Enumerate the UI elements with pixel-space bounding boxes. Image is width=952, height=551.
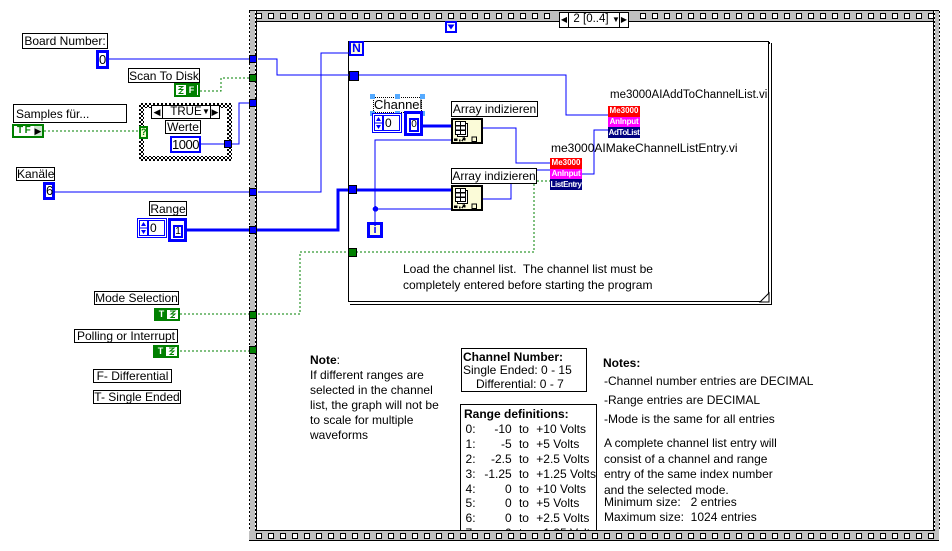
tunnel seq mode [249, 311, 257, 319]
selection handles channel [370, 94, 375, 99]
wire polling or interrupt [180, 350, 250, 352]
for loop shadow bottom [350, 304, 772, 305]
range definitions box [460, 404, 597, 537]
label Werte [165, 120, 201, 134]
icon index array 2 [451, 185, 483, 211]
sequence structure film strip frame [249, 10, 939, 22]
wire index array 2 output [483, 170, 550, 199]
wire kanaele to N [258, 53, 350, 192]
wire board number outside [109, 58, 250, 60]
label Kanaele [16, 167, 55, 181]
wire 1000 to tunnel [201, 143, 232, 145]
label Board Number [22, 33, 108, 49]
numeric constant 1000 [170, 136, 201, 153]
tunnel for loop board number [349, 71, 359, 81]
wire mode selection inside loop [356, 181, 550, 252]
label Scan To Disk [128, 68, 200, 83]
wire range outside (thick) [187, 229, 250, 232]
wire index array 1 output [483, 128, 550, 163]
range index display [137, 218, 167, 238]
label Array indizieren 1 [451, 101, 538, 117]
boolean constant scan to disk F [174, 83, 200, 97]
wire mode selection inside sequence [258, 252, 350, 314]
range element terminal 1 [168, 218, 187, 242]
sequence selector label [559, 12, 629, 28]
tunnel seq kanaele [249, 188, 257, 196]
comment load channel list [403, 261, 653, 293]
label F- Differential [93, 369, 172, 383]
label Array indizieren 2 [451, 168, 537, 184]
wire i to second index array [375, 208, 451, 210]
N terminal [349, 41, 364, 56]
boolean constant mode T [154, 308, 180, 321]
terminal Board Number 0 [96, 50, 109, 69]
icon index array 1 [451, 118, 483, 144]
case structure frame [139, 103, 232, 161]
wire range inside loop (thick) [356, 189, 451, 192]
tunnel seq scan to disk [249, 74, 257, 82]
label Channel with selection handles [373, 97, 422, 113]
wire range to loop tunnel (thick) [257, 190, 350, 230]
notes block [603, 355, 640, 371]
label Samples fuer [13, 104, 127, 123]
icon me3000AIMakeChannelListEntry [550, 158, 582, 190]
wire scan to disk (dotted green) [200, 78, 250, 91]
wire i iterator up [375, 140, 451, 222]
for loop shadow right [771, 43, 772, 305]
tunnel seq range [249, 226, 257, 234]
wire samples TF to case selector [44, 130, 139, 132]
channel number box [461, 348, 587, 392]
tunnel case right border [224, 140, 232, 148]
junction dot i wire [373, 206, 379, 212]
for loop main border [348, 41, 769, 302]
label me3000AIMakeChannelListEntry.vi [551, 140, 738, 156]
terminal Kanaele 6 [43, 182, 55, 200]
case selector terminal ? [139, 126, 148, 139]
tunnel seq polling [249, 346, 257, 354]
sequence local down arrow [445, 21, 457, 33]
wire board number inside sequence [258, 59, 350, 75]
label Polling or Interrupt [74, 329, 178, 343]
label me3000AIAddToChannelList.vi [610, 87, 767, 103]
boolean control TF samples [12, 124, 44, 138]
label Range [149, 201, 187, 216]
wire kanaele outside [55, 191, 250, 193]
wire mode selection outside [180, 313, 250, 315]
label Mode Selection [94, 291, 179, 305]
channel index display [372, 113, 402, 133]
case selector label TRUE [151, 105, 220, 119]
wire make entry output [582, 130, 608, 174]
tunnel seq board number [249, 55, 257, 63]
boolean constant polling T [153, 345, 179, 358]
i terminal [367, 222, 383, 238]
wire board number inside loop [358, 75, 608, 115]
icon me3000AIAddToChannelList [608, 106, 640, 138]
label T- Single Ended [93, 390, 181, 404]
tunnel seq 1000 [249, 99, 257, 107]
tunnel for loop mode green [348, 248, 357, 257]
note block [310, 353, 439, 442]
tunnel for loop range [348, 185, 357, 194]
channel element terminal 0 [404, 111, 423, 136]
wire channel array (thick) [423, 125, 451, 128]
